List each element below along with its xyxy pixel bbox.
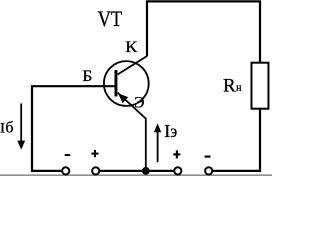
svg-text:VT: VT bbox=[98, 6, 123, 31]
svg-text:К: К bbox=[125, 39, 137, 56]
svg-text:э: э bbox=[170, 121, 177, 141]
svg-text:I: I bbox=[0, 119, 5, 136]
svg-text:н: н bbox=[236, 80, 242, 94]
svg-text:б: б bbox=[5, 119, 13, 136]
svg-text:Б: Б bbox=[82, 68, 92, 85]
svg-text:I: I bbox=[164, 121, 170, 141]
svg-text:R: R bbox=[223, 76, 236, 97]
svg-text:Э: Э bbox=[134, 95, 144, 112]
